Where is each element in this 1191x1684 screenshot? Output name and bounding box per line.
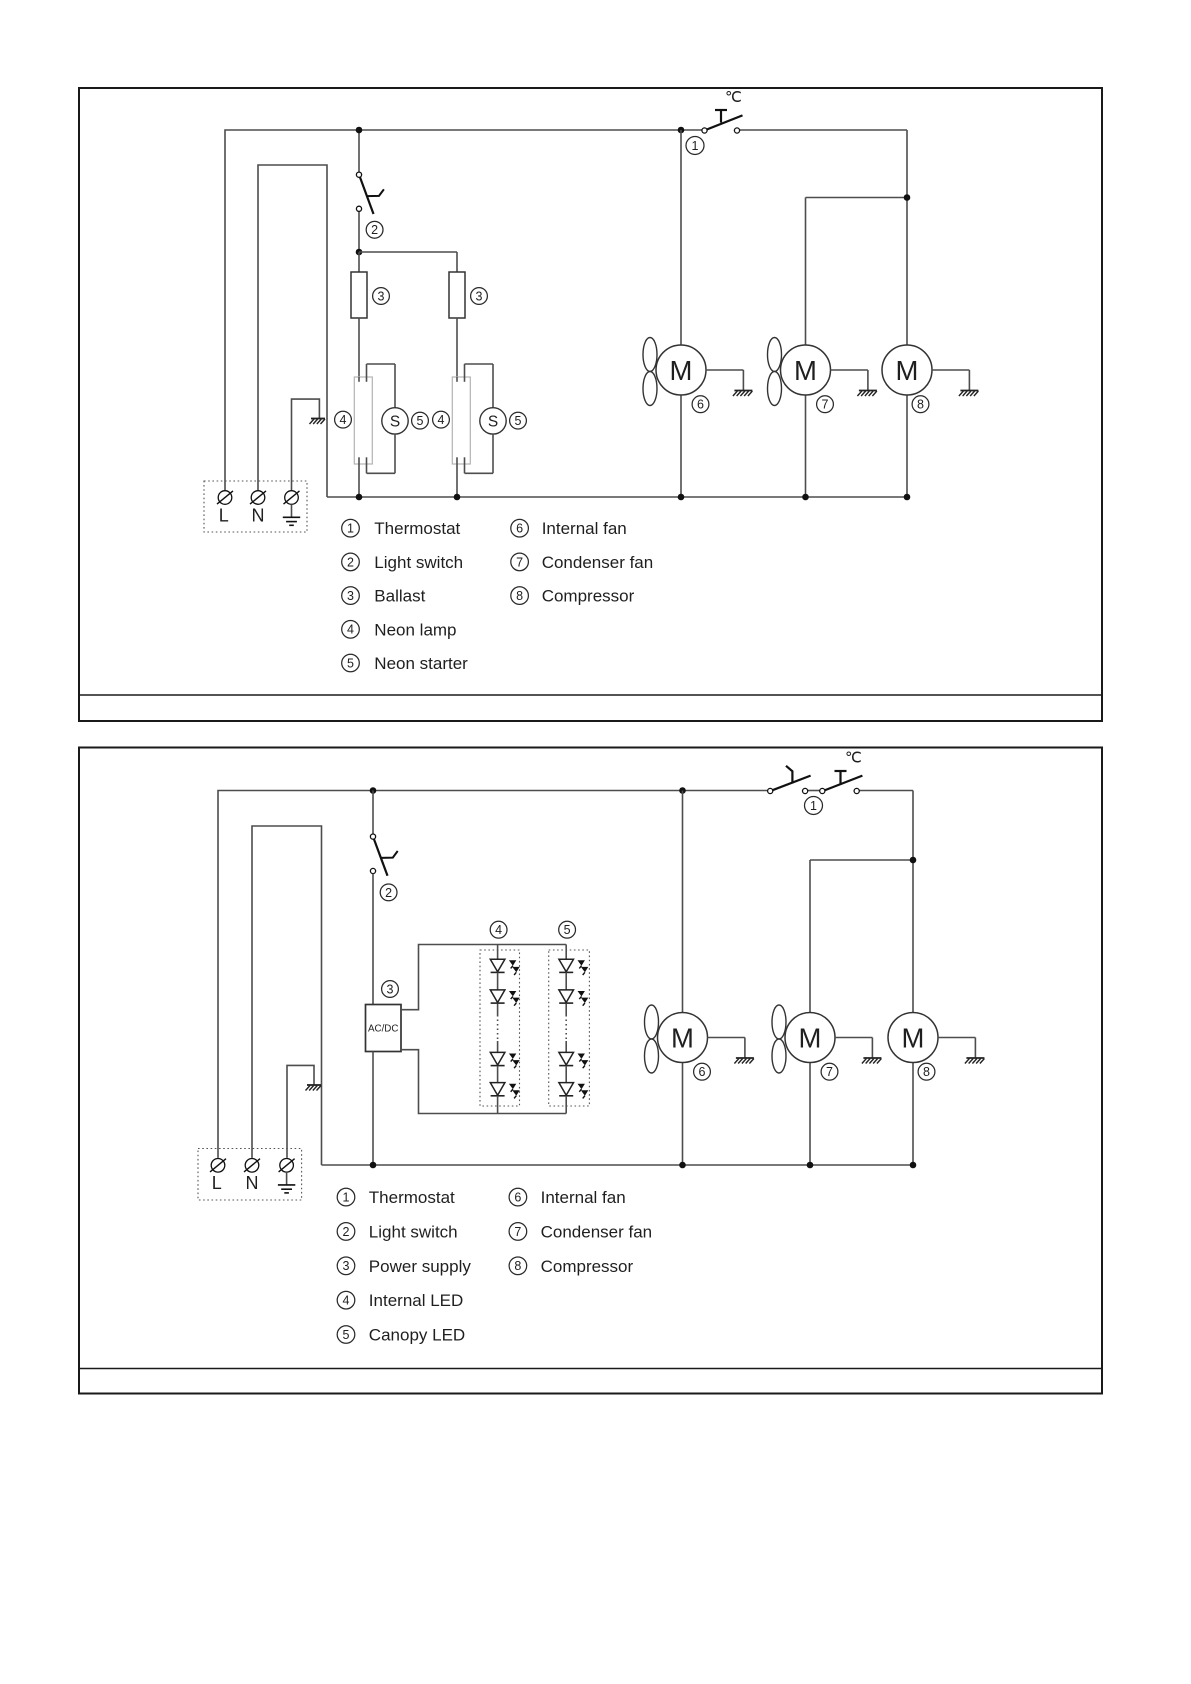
- svg-text:Neon starter: Neon starter: [374, 654, 468, 673]
- svg-text:3: 3: [476, 289, 483, 303]
- svg-text:5: 5: [347, 656, 354, 670]
- svg-text:Power supply: Power supply: [369, 1257, 472, 1276]
- svg-text:6: 6: [514, 1191, 521, 1205]
- svg-text:1: 1: [692, 139, 699, 153]
- svg-text:6: 6: [516, 522, 523, 536]
- svg-text:Thermostat: Thermostat: [369, 1188, 455, 1207]
- svg-text:Compressor: Compressor: [541, 1257, 634, 1276]
- svg-text:Light switch: Light switch: [369, 1222, 458, 1241]
- svg-text:2: 2: [385, 886, 392, 900]
- svg-text:Ballast: Ballast: [374, 587, 425, 606]
- svg-text:2: 2: [343, 1225, 350, 1239]
- svg-text:7: 7: [516, 555, 523, 569]
- svg-text:2: 2: [347, 555, 354, 569]
- svg-text:3: 3: [347, 589, 354, 603]
- svg-text:Condenser fan: Condenser fan: [541, 1222, 653, 1241]
- svg-text:5: 5: [564, 923, 571, 937]
- svg-text:3: 3: [343, 1259, 350, 1273]
- svg-text:7: 7: [822, 398, 829, 412]
- svg-text:6: 6: [699, 1065, 706, 1079]
- svg-text:1: 1: [347, 522, 354, 536]
- svg-text:Light switch: Light switch: [374, 553, 463, 572]
- svg-text:4: 4: [343, 1294, 350, 1308]
- svg-text:8: 8: [923, 1065, 930, 1079]
- svg-text:8: 8: [514, 1259, 521, 1273]
- svg-text:2: 2: [371, 223, 378, 237]
- svg-text:4: 4: [347, 623, 354, 637]
- svg-text:Neon lamp: Neon lamp: [374, 620, 456, 639]
- svg-text:Condenser fan: Condenser fan: [542, 553, 654, 572]
- svg-text:M: M: [799, 1023, 822, 1054]
- svg-text:L: L: [219, 506, 229, 526]
- svg-text:4: 4: [438, 413, 445, 427]
- svg-text:N: N: [246, 1173, 259, 1193]
- svg-text:8: 8: [917, 398, 924, 412]
- svg-text:7: 7: [514, 1225, 521, 1239]
- svg-text:Compressor: Compressor: [542, 587, 635, 606]
- svg-text:M: M: [671, 1023, 694, 1054]
- svg-text:S: S: [390, 414, 400, 431]
- svg-text:5: 5: [343, 1328, 350, 1342]
- svg-text:5: 5: [417, 414, 424, 428]
- svg-text:4: 4: [340, 413, 347, 427]
- svg-text:6: 6: [697, 398, 704, 412]
- svg-text:℃: ℃: [725, 89, 742, 106]
- svg-text:L: L: [212, 1173, 222, 1193]
- svg-text:Internal LED: Internal LED: [369, 1291, 464, 1310]
- svg-text:AC/DC: AC/DC: [368, 1023, 398, 1034]
- svg-text:N: N: [252, 506, 265, 526]
- svg-text:7: 7: [826, 1065, 833, 1079]
- svg-text:1: 1: [810, 799, 817, 813]
- svg-text:3: 3: [387, 982, 394, 996]
- svg-text:S: S: [488, 414, 498, 431]
- svg-text:5: 5: [515, 414, 522, 428]
- svg-text:Internal fan: Internal fan: [541, 1188, 626, 1207]
- svg-text:4: 4: [495, 923, 502, 937]
- svg-text:Canopy LED: Canopy LED: [369, 1326, 465, 1345]
- svg-text:8: 8: [516, 589, 523, 603]
- svg-text:M: M: [902, 1023, 925, 1054]
- svg-text:M: M: [670, 355, 693, 386]
- svg-text:℃: ℃: [845, 750, 862, 767]
- svg-text:Thermostat: Thermostat: [374, 519, 460, 538]
- svg-text:3: 3: [378, 289, 385, 303]
- svg-text:M: M: [896, 355, 919, 386]
- svg-text:Internal fan: Internal fan: [542, 519, 627, 538]
- svg-text:1: 1: [343, 1191, 350, 1205]
- svg-text:M: M: [794, 355, 817, 386]
